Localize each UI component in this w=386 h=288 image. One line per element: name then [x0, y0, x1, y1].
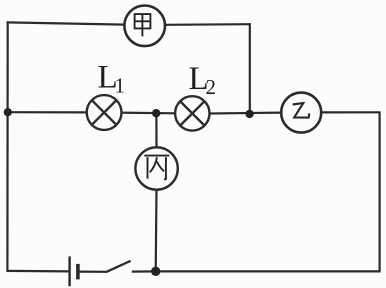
wire from switch contact to node D: [132, 270, 157, 272]
wire bottom rail right (node D to bottom-right corner): [156, 270, 381, 272]
lamp L2 (circle with X): [175, 96, 209, 130]
wire main rail segment between L2 and meter 乙 (through node B): [210, 111, 282, 114]
node D (junction dot on bottom rail): [151, 267, 160, 276]
node C (junction dot between L1 and L2): [152, 109, 160, 117]
lamp L1 (circle with X): [87, 95, 122, 130]
svg-text:2: 2: [206, 75, 217, 99]
meter 甲 character strokes: [135, 14, 151, 37]
wire bottom rail left (left rail to battery): [7, 270, 69, 273]
meter 乙 (circle): [281, 93, 321, 133]
meter 乙 character strokes: [293, 103, 310, 118]
meter 丙 character strokes: [144, 156, 169, 180]
wire top rail left (from left rail to meter 甲): [7, 22, 125, 24]
battery (short plate, negative): [76, 264, 80, 280]
wire branch vertical at x=250 (top corner down to node B): [249, 23, 251, 113]
wire main rail segment A (node A to lamp L1): [8, 111, 87, 113]
wire main rail segment between L1 and L2 (through node C): [121, 112, 175, 115]
wire from node C down to meter 丙: [155, 113, 157, 147]
wire from meter 丙 down to node D: [155, 190, 158, 272]
label L2: [189, 61, 217, 99]
svg-text:1: 1: [115, 74, 126, 98]
wire top rail right (from meter 甲 to top-right corner): [165, 23, 251, 26]
wire from meter 乙 to right rail: [321, 111, 380, 113]
wire from battery to switch pivot: [79, 271, 106, 273]
label L1: [98, 60, 126, 98]
meter 甲 (circle): [124, 6, 165, 47]
node A (junction dot left rail / main rail): [4, 108, 12, 116]
battery (long plate, positive): [68, 256, 70, 286]
meter 丙 (circle): [135, 147, 177, 189]
wire left rail vertical: [6, 21, 8, 271]
wire right rail vertical: [379, 111, 381, 271]
switch S (open blade): [106, 261, 131, 272]
node B (junction dot at branch from top rail): [245, 110, 253, 118]
